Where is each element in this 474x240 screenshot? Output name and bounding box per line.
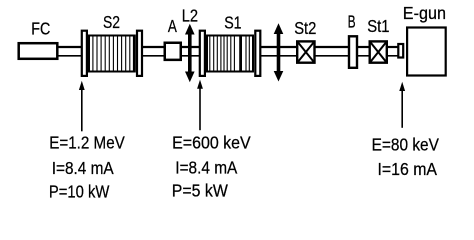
svg-text:L2: L2 xyxy=(182,6,198,26)
svg-text:A: A xyxy=(168,16,177,36)
svg-text:P=5 kW: P=5 kW xyxy=(172,181,228,201)
svg-text:B: B xyxy=(348,12,356,32)
svg-text:E=600 keV: E=600 keV xyxy=(172,132,251,152)
svg-text:I=8.4 mA: I=8.4 mA xyxy=(175,158,237,178)
svg-text:E=1.2 MeV: E=1.2 MeV xyxy=(49,133,125,153)
svg-text:S2: S2 xyxy=(103,12,120,32)
svg-text:S1: S1 xyxy=(224,12,241,32)
svg-text:I=16 mA: I=16 mA xyxy=(378,159,438,179)
svg-text:E=80 keV: E=80 keV xyxy=(372,135,440,155)
svg-text:St1: St1 xyxy=(367,16,389,36)
svg-text:I=8.4 mA: I=8.4 mA xyxy=(52,158,114,178)
svg-text:FC: FC xyxy=(31,18,50,38)
svg-text:P=10 kW: P=10 kW xyxy=(49,182,110,202)
svg-text:E-gun: E-gun xyxy=(403,3,446,23)
svg-text:St2: St2 xyxy=(294,18,316,38)
